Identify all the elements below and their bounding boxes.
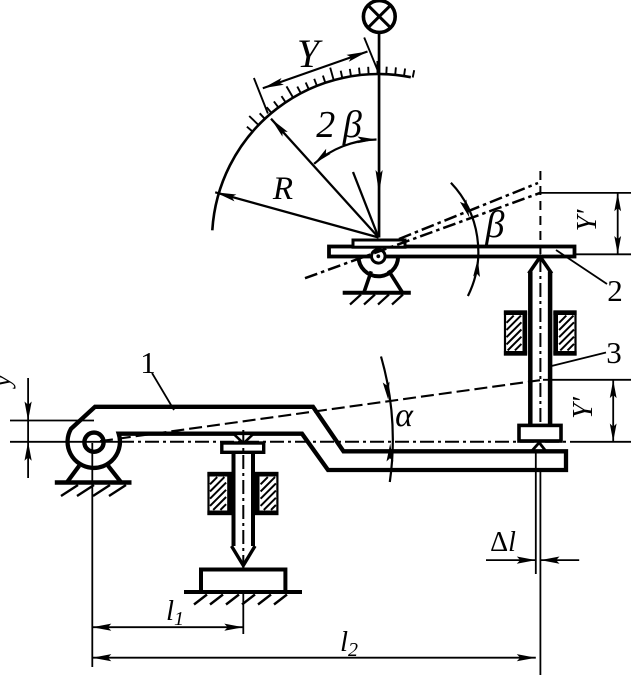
spindle contact point — [234, 434, 254, 444]
anvil ground — [184, 590, 302, 594]
delta l dimension — [486, 559, 536, 561]
leader line for label 3 — [550, 353, 607, 367]
svg-text:1: 1 — [140, 345, 156, 380]
graduated scale arc — [212, 74, 410, 230]
lower Y-prime extension line — [543, 379, 631, 381]
svg-text:3: 3 — [606, 335, 622, 370]
lever 1 outline — [68, 407, 566, 470]
spindle shaft — [234, 452, 254, 546]
lower Y-prime dimension line — [612, 380, 614, 442]
rod 3 pointed tip — [529, 257, 552, 274]
angle beta arc with arrows — [451, 183, 478, 296]
lever 2 pivot — [372, 249, 386, 263]
lever 1 pivot support — [67, 466, 79, 483]
svg-text:y: y — [0, 375, 16, 390]
mirror support ground — [343, 291, 411, 295]
y dimension line — [27, 378, 29, 478]
l1 dimension line — [92, 626, 243, 628]
rod 3 foot — [519, 425, 561, 441]
radius line R with arrow — [215, 192, 378, 237]
upper reference line — [10, 420, 94, 422]
leader line for label 2 — [556, 250, 607, 284]
svg-text:Y′: Y′ — [572, 209, 603, 232]
svg-text:Y′: Y′ — [568, 396, 599, 419]
mirror plate — [353, 240, 405, 247]
l2 dimension line — [92, 657, 536, 659]
tilted lever 1 phantom line — [100, 380, 540, 441]
svg-text:β: β — [485, 204, 505, 246]
svg-text:2: 2 — [607, 273, 623, 308]
rod 3 contact point — [531, 443, 547, 453]
tilted lever 2 axis phantom line — [305, 193, 541, 279]
rod 3 centerline — [539, 258, 541, 452]
upper Y-prime dimension line — [617, 193, 619, 254]
spindle guide bearing left — [209, 473, 231, 514]
spindle guide bearing right — [256, 473, 277, 514]
angle 2beta arc with arrows — [314, 140, 376, 164]
rod 3 centerline extension dashed — [539, 171, 541, 254]
tilted mirror phantom line — [399, 183, 538, 239]
mirror pivot housing — [359, 257, 399, 277]
anvil base — [201, 570, 285, 593]
rod 3 guide bearing left — [505, 312, 526, 355]
incident light ray — [378, 34, 381, 238]
dimension Y chord with arrows — [263, 52, 368, 89]
spindle cap — [222, 443, 264, 452]
upper Y-prime extension lines — [540, 193, 631, 254]
pivot extension line — [91, 443, 93, 667]
svg-text:2 β: 2 β — [316, 104, 362, 146]
lever 1 pivot hole — [84, 433, 103, 452]
spindle taper tip — [232, 546, 256, 566]
svg-text:α: α — [395, 397, 414, 434]
leader line for label 1 — [152, 373, 174, 410]
Y dimension end marks — [254, 38, 378, 114]
lamp (light source) — [363, 1, 395, 33]
mirror normal ray — [353, 172, 379, 238]
svg-text:R: R — [272, 171, 293, 207]
spindle centerline — [242, 430, 244, 592]
svg-text:Y: Y — [297, 31, 323, 76]
deflected ray to scale — [271, 119, 379, 238]
rod 3 guide bearing right — [555, 312, 576, 355]
angle alpha arc with arrows — [381, 357, 393, 483]
horizontal centerline — [10, 441, 120, 443]
lever 1 support ground — [55, 480, 132, 484]
svg-text:Δl: Δl — [490, 527, 516, 558]
lever 2 bar — [329, 247, 575, 257]
rod 3 body — [530, 272, 550, 426]
contact extension line — [535, 450, 537, 574]
